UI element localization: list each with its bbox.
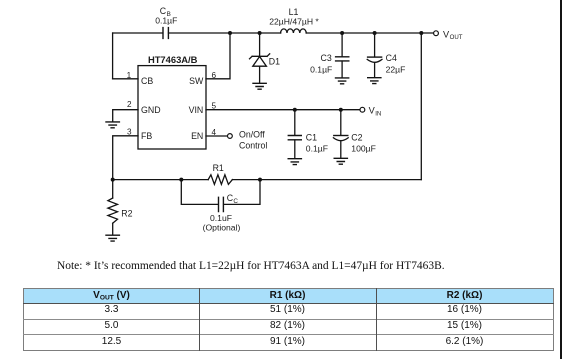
label 0.1uF (C1) <box>306 144 328 154</box>
table header cell R1 (kOhm) <box>200 289 375 302</box>
svg-text:4: 4 <box>212 128 217 137</box>
wire: VIN rail <box>206 109 360 111</box>
resistor R2 <box>108 180 118 235</box>
wire: EN pin stub <box>206 135 227 137</box>
label C2 <box>351 133 362 143</box>
table: line under row 2 <box>23 334 554 335</box>
label 0.1uF (CB) <box>155 16 177 26</box>
ground: below C2 <box>334 158 347 164</box>
wire: top rail right segment <box>306 32 433 34</box>
label CC <box>227 193 239 205</box>
pin label CB <box>141 76 153 86</box>
label (Optional) <box>203 223 241 233</box>
svg-text:C: C <box>233 198 238 205</box>
label C1 <box>306 133 317 143</box>
resistor R1 <box>208 175 232 185</box>
capacitor C2 (polarized) <box>333 110 348 158</box>
svg-text:OUT: OUT <box>450 34 463 41</box>
wire: CB loop left vertical <box>112 33 114 79</box>
table row 3 <box>24 335 199 348</box>
table: outer border <box>23 288 554 351</box>
wire: GND pin stub <box>113 110 138 122</box>
table header cell VOUT (V) <box>24 289 199 305</box>
svg-text:GND: GND <box>141 105 161 115</box>
svg-text:On/Off: On/Off <box>239 129 265 139</box>
label L1 <box>289 7 299 17</box>
ground: below C3 <box>336 78 349 84</box>
table: column separator 1 <box>199 288 200 351</box>
label HT7463A/B <box>148 54 198 65</box>
label On/Off Control <box>239 129 267 150</box>
label C4 <box>386 53 397 63</box>
svg-text:VIN: VIN <box>189 105 204 115</box>
terminal VIN circle <box>360 107 365 112</box>
wire: feedback rail left <box>113 179 209 181</box>
junction: SW to top rail <box>228 31 232 35</box>
capacitor CB plates <box>163 28 168 39</box>
label R2 <box>121 209 132 219</box>
label D1 <box>269 56 280 66</box>
label 22uF (C4) <box>386 65 406 75</box>
svg-text:C2: C2 <box>351 133 362 143</box>
label VOUT terminal <box>443 29 463 41</box>
capacitor C3 <box>336 33 349 78</box>
ground: below C4 <box>368 78 381 84</box>
svg-text:D1: D1 <box>269 56 280 66</box>
svg-text:Control: Control <box>239 141 267 151</box>
page right edge rule <box>560 0 562 359</box>
label R1 <box>213 163 224 173</box>
wire: SW pin stub and riser <box>206 33 230 79</box>
ground: GND pin <box>106 122 119 128</box>
table header cell R2 (kOhm) <box>377 289 552 302</box>
capacitor CC branch <box>181 180 260 212</box>
svg-text:2: 2 <box>127 100 132 109</box>
svg-text:(Optional): (Optional) <box>203 223 241 233</box>
junction: C2 to VIN rail <box>339 108 343 112</box>
label 100uF (C2) <box>351 144 376 154</box>
pin label FB <box>141 131 152 141</box>
pin label VIN <box>189 105 204 115</box>
svg-text:5: 5 <box>212 101 217 110</box>
svg-text:FB: FB <box>141 131 152 141</box>
ground: below R2 <box>106 235 119 241</box>
label C3 <box>321 53 332 63</box>
junction: VOUT feedback tap <box>419 31 423 35</box>
table: line under header <box>23 303 554 304</box>
circuit schematic SVG <box>0 0 563 258</box>
pin number 2 <box>127 100 132 109</box>
table: column separator 2 <box>376 288 377 351</box>
svg-text:100µF: 100µF <box>351 144 376 154</box>
inductor L1 <box>281 29 307 33</box>
junction: FB/R2 node <box>111 178 115 182</box>
svg-text:1: 1 <box>127 71 132 80</box>
table: line under row 1 <box>23 319 554 320</box>
label 0.1uF (CC) <box>210 213 232 223</box>
junction: R1/CC right node <box>258 178 262 182</box>
label 22uH/47uH * <box>269 17 319 27</box>
svg-text:HT7463A/B: HT7463A/B <box>148 54 198 65</box>
svg-text:0.1µF: 0.1µF <box>155 16 177 26</box>
junction: C1 to VIN rail <box>293 108 297 112</box>
svg-text:3: 3 <box>127 127 132 136</box>
svg-text:0.1µF: 0.1µF <box>310 65 332 75</box>
wire: feedback vertical from VOUT node <box>420 33 422 180</box>
label CB <box>160 6 171 18</box>
wire: pin 1 stub <box>113 78 138 80</box>
pin label EN <box>191 131 203 141</box>
note text <box>57 260 445 272</box>
IC U1 HT7463A/B body <box>138 66 206 149</box>
svg-text:CB: CB <box>141 76 153 86</box>
pin label SW <box>189 76 204 86</box>
svg-text:C1: C1 <box>306 133 317 143</box>
svg-text:22µF: 22µF <box>386 65 406 75</box>
capacitor C4 (polarized) <box>367 33 382 77</box>
table row 2 <box>24 319 199 332</box>
pin number 3 <box>127 127 132 136</box>
svg-text:IN: IN <box>375 110 381 117</box>
junction: D1 to top rail <box>258 31 262 35</box>
pin number 5 <box>212 101 217 110</box>
svg-text:EN: EN <box>191 131 203 141</box>
svg-text:C4: C4 <box>386 53 397 63</box>
terminal VOUT circle <box>434 31 439 36</box>
wire: top rail middle segment <box>169 32 281 34</box>
table: header background <box>23 288 554 303</box>
junction: C4 to top rail <box>373 31 377 35</box>
pin label GND <box>141 105 161 115</box>
pin number 1 <box>127 71 132 80</box>
label VIN terminal <box>369 105 382 117</box>
label 0.1uF (C3) <box>310 65 332 75</box>
svg-text:R1: R1 <box>213 163 224 173</box>
junction: C3 to top rail <box>340 31 344 35</box>
ground: below C1 <box>288 159 301 165</box>
diode D1 <box>250 33 270 83</box>
svg-text:R2: R2 <box>121 209 132 219</box>
svg-text:C3: C3 <box>321 53 332 63</box>
svg-text:0.1µF: 0.1µF <box>306 144 328 154</box>
svg-text:SW: SW <box>189 76 204 86</box>
svg-text:6: 6 <box>212 71 217 80</box>
wire: FB pin stub and drop <box>113 136 138 180</box>
svg-text:L1: L1 <box>289 7 299 17</box>
ground: below D1 <box>253 83 266 89</box>
pin number 4 <box>212 128 217 137</box>
terminal EN circle <box>228 134 233 139</box>
pin number 6 <box>212 71 217 80</box>
junction: R1/CC left node <box>179 178 183 182</box>
svg-text:22µH/47µH *: 22µH/47µH * <box>269 17 319 27</box>
wire: feedback rail right <box>232 179 421 181</box>
wire: top rail left segment <box>113 32 163 34</box>
table row 1 <box>24 303 199 316</box>
capacitor C1 <box>288 110 301 159</box>
